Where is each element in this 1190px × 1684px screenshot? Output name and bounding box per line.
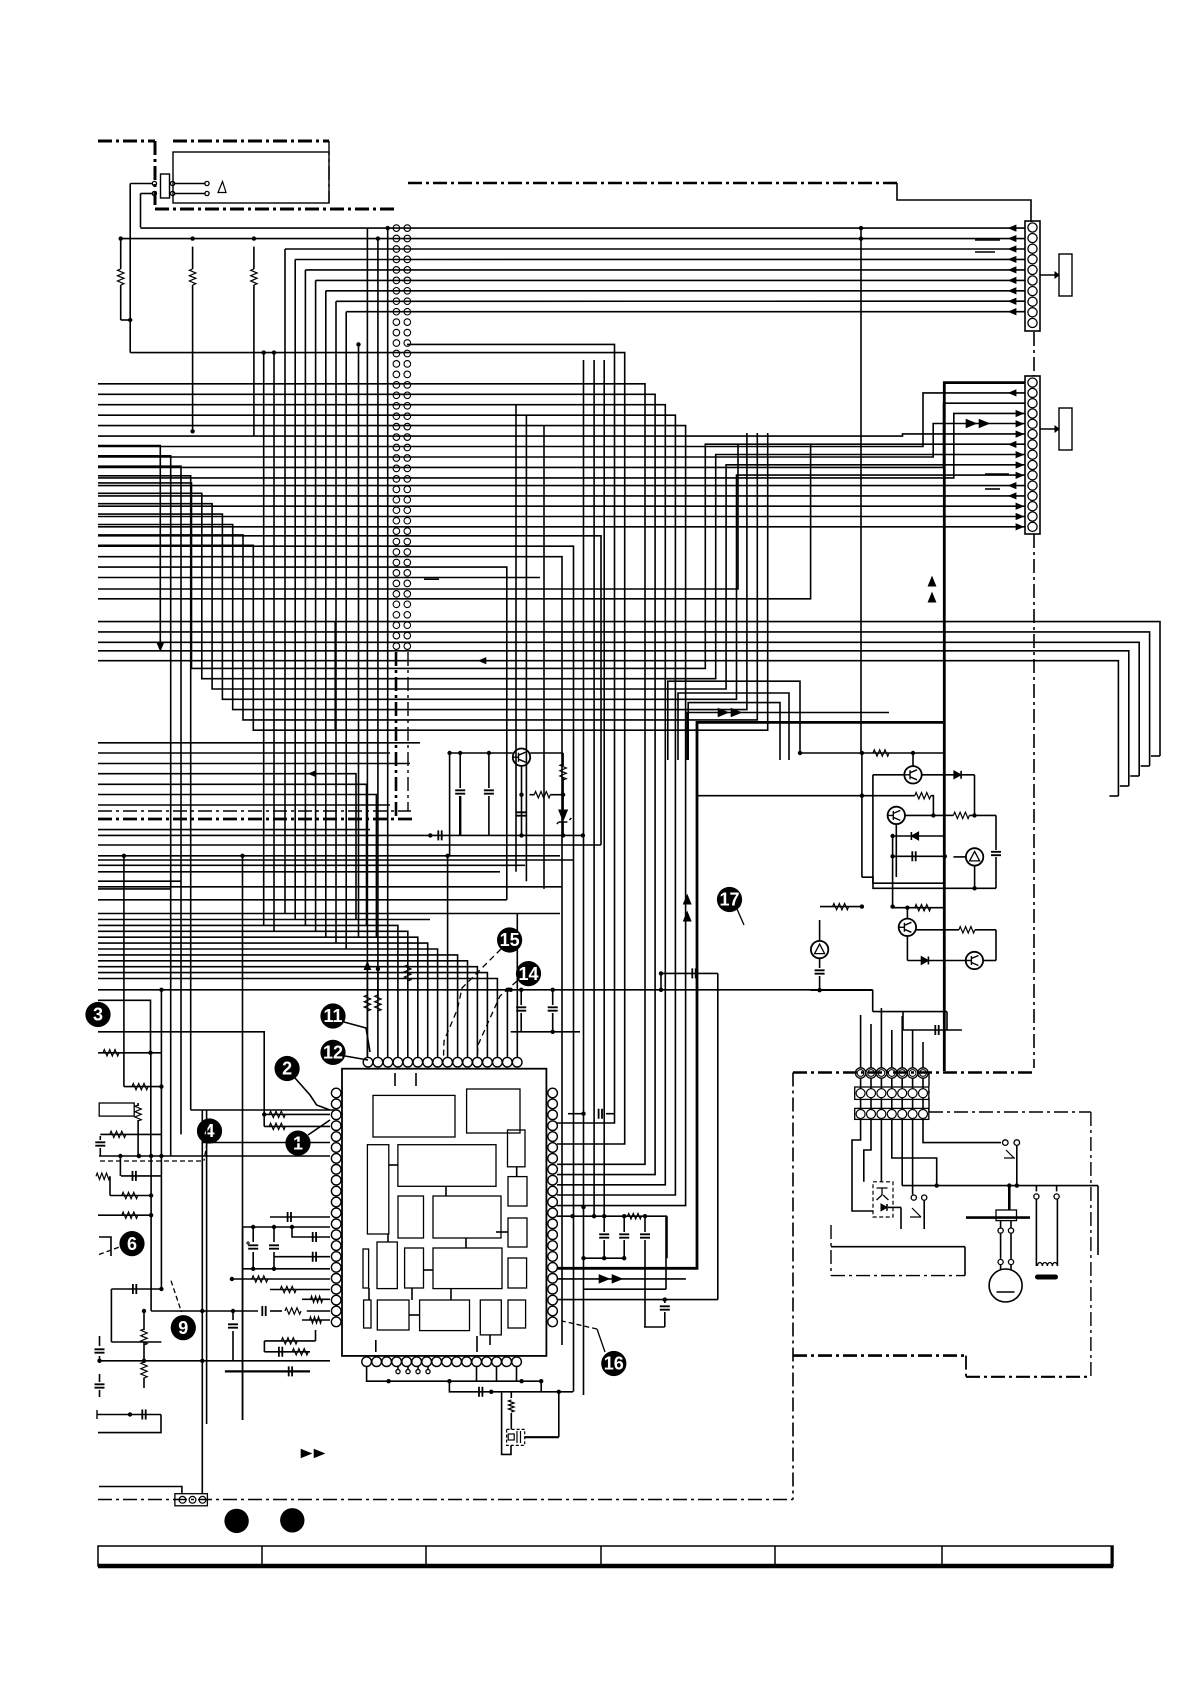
wire row 763 <box>98 763 410 765</box>
wire row 913 <box>98 913 560 915</box>
wire v151 <box>149 1154 153 1311</box>
wire row 599 <box>98 445 811 599</box>
wire row 352 <box>129 352 131 354</box>
wire row 1289 cap <box>111 1284 163 1342</box>
wire v583 lower <box>581 1205 585 1395</box>
resistor R-m2 <box>270 1286 330 1292</box>
transistor Q2 <box>904 766 921 783</box>
svg-text:14: 14 <box>518 964 538 984</box>
resistor R-907b <box>893 905 945 911</box>
coil L1 winding <box>1035 1200 1058 1280</box>
transistor Q3 <box>888 807 905 824</box>
badge 9 <box>171 1281 196 1341</box>
wire opto led right <box>888 1207 901 1229</box>
wire IC pin1 stub <box>366 969 368 1057</box>
resistor R-m6 <box>264 1347 310 1357</box>
svg-text:16: 16 <box>604 1354 624 1374</box>
wire row 855 <box>98 854 560 858</box>
wire Q5 top <box>905 906 909 919</box>
wire row 1269 <box>243 1267 330 1271</box>
capacitor C-l8 <box>95 1374 105 1397</box>
lamp feed contacts <box>998 1221 1014 1270</box>
shield rect <box>831 1225 965 1276</box>
wire Q2 left drop <box>873 775 945 883</box>
wire opto pin3 <box>880 1119 882 1181</box>
wire IC pin2 res <box>375 967 381 1057</box>
switch S1 <box>910 1119 927 1229</box>
wire row 829 <box>98 829 370 831</box>
capacitor C-r1 <box>568 1109 615 1119</box>
boundary dash-dot lamp box <box>793 1073 1091 1377</box>
wire IC pin3 up <box>387 920 389 1058</box>
wire row 1032 left <box>98 1032 264 1115</box>
capacitor C-m2 <box>246 1227 258 1269</box>
wire v202 <box>201 1110 203 1494</box>
wire cap bottoms row <box>511 1030 580 1034</box>
arrow up marks <box>684 895 691 921</box>
wire v150 mid <box>150 1053 152 1156</box>
fuse pins <box>152 181 209 195</box>
wire vertical x=861 top <box>859 226 863 248</box>
capacitor hang 2 <box>548 990 558 1032</box>
resistor rows to pins 1-2 area <box>262 1111 330 1129</box>
wire heavy relay feed <box>966 1186 1030 1218</box>
wire Q1 emitter <box>519 766 523 838</box>
wire vertical to IC pin2 <box>376 236 380 998</box>
wire rows to far-right verticals <box>98 622 1160 796</box>
wire rows near IC left <box>191 1110 335 1143</box>
wire heavy gnd <box>225 1366 310 1376</box>
wire bus A corner verticals <box>285 249 346 950</box>
screw hole left <box>224 1509 248 1533</box>
capacitor C-l1 <box>95 1136 105 1156</box>
resistor R-pull3 <box>251 247 257 436</box>
wire bus A rows 3-9 <box>285 249 1025 312</box>
badge 15 <box>444 927 523 1057</box>
wire row 589 <box>98 445 738 589</box>
boundary dash-dot left board edge <box>98 652 416 819</box>
arrow marks mid-up <box>928 577 935 602</box>
optocoupler diode <box>881 1204 887 1211</box>
screw hole right <box>280 1508 304 1532</box>
transistor Q5 <box>899 919 916 936</box>
resistor R-l4 <box>98 1212 153 1218</box>
wire Q2 row <box>873 774 945 776</box>
IC U1 inner blocks <box>363 1089 527 1335</box>
svg-text:3: 3 <box>93 1005 103 1025</box>
badge 14 <box>477 961 541 1057</box>
bus arrowheads into CN2 <box>1009 390 1023 530</box>
wire Q6 top <box>819 920 821 941</box>
IC U1 right pins <box>548 1088 558 1327</box>
resistor R-l3 <box>110 1192 153 1198</box>
wire stair f1 row1 <box>98 446 164 651</box>
junction v161 upper <box>159 988 163 1135</box>
badge 17 <box>717 887 744 925</box>
capacitor C-m6 <box>228 1309 238 1361</box>
wire rows 681-702 nest <box>668 681 800 760</box>
resistor R-907a <box>820 903 864 909</box>
svg-text:15: 15 <box>500 930 520 950</box>
wire IC pin row drops <box>477 1367 517 1382</box>
resistor R-q1 <box>530 792 566 798</box>
wire row 889b <box>98 888 171 890</box>
wire IC bottom small stubs <box>396 1367 430 1374</box>
wire row 1030 cap <box>903 1012 962 1035</box>
wire row 795 T2 feed <box>697 794 864 798</box>
wire row 919 <box>98 919 430 921</box>
wire row 1361 <box>98 1359 330 1363</box>
double arrow mark bottom <box>301 1450 324 1458</box>
wire fuse left leads <box>130 184 152 194</box>
capacitor C-sub1 <box>599 1216 609 1258</box>
wire row 835 rail <box>98 830 585 840</box>
resistor R-pull1 <box>118 236 133 322</box>
wire nested staircase left-to-CN2 <box>98 433 1025 730</box>
wire double arrow row 712 <box>687 709 889 761</box>
optocoupler PC1 box <box>873 1182 893 1217</box>
wire row 1000 corner <box>98 1000 151 1053</box>
badge 11 <box>320 1003 370 1052</box>
capacitor C-m4 <box>292 1227 330 1242</box>
wire IC gnd rail <box>367 1367 544 1384</box>
wire Q1 rail right <box>530 752 563 754</box>
wire row 774 corner <box>98 774 356 920</box>
resistor R-l5 <box>141 1309 147 1361</box>
wire row 1299 <box>557 1100 718 1302</box>
transistor Q7 <box>966 952 983 969</box>
wire v1239 long <box>123 856 125 1087</box>
wire row 1227 <box>243 1225 330 1229</box>
resistor R-m4 <box>302 1317 330 1323</box>
wire pin4 to node <box>892 1119 939 1187</box>
wire v2425 <box>242 856 244 1420</box>
wire row 973 cap <box>659 968 718 989</box>
wire xtal left loop <box>502 1392 511 1455</box>
wire row 990 long <box>98 988 873 1012</box>
wire IC pin9 up <box>447 856 449 1057</box>
coil L1 contacts <box>1034 1186 1059 1200</box>
resistor R-m3 <box>302 1296 330 1302</box>
wire row 795 res <box>862 793 936 818</box>
wires into board link rows <box>861 1008 923 1110</box>
capacitor C-sub3 <box>640 1216 650 1327</box>
wire row 1012 <box>873 1012 947 1030</box>
diode D-960 <box>907 936 965 965</box>
boundary dash-dot mid-right <box>98 1073 1034 1500</box>
wire row 1087 res <box>124 1083 164 1089</box>
capacitor C-q6 <box>815 958 825 990</box>
wire vertical x=387 <box>386 226 390 920</box>
svg-text:9: 9 <box>178 1318 188 1338</box>
wire bus A row 2 <box>121 236 1025 240</box>
wire IC pin1 res <box>364 975 370 1057</box>
resistor R-l2 <box>96 1173 110 1195</box>
wire vert x263 <box>262 350 266 925</box>
wire 6 stub <box>99 1237 111 1256</box>
resistor R-m5 <box>264 1330 315 1352</box>
wire Q3 leads <box>896 815 945 877</box>
wire vert x358 <box>356 342 360 937</box>
capacitor C-q5 <box>991 845 1001 888</box>
wire row 577 <box>98 577 540 579</box>
wire vert caps feeders <box>584 360 605 1216</box>
wire rows to IC right pins <box>98 344 686 1205</box>
wire CN1 label arrow <box>1040 272 1059 278</box>
wire v130 to row352 <box>129 320 131 353</box>
capacitor C-1312 <box>660 1300 670 1327</box>
connector CN2 label box <box>1059 408 1072 450</box>
capacitor C-m1 <box>270 1212 330 1222</box>
board link row A <box>855 1068 928 1078</box>
badge 2 <box>275 1056 331 1110</box>
double arrow on CN2 pin5 row <box>966 420 989 428</box>
badge 1 <box>285 1120 330 1156</box>
svg-text:11: 11 <box>323 1006 342 1026</box>
badge 4 <box>100 1118 222 1161</box>
resistor R-pull2 <box>189 247 195 434</box>
table bar <box>98 1546 1113 1566</box>
transistor Q4 <box>966 848 983 865</box>
table bar dividers <box>262 1546 942 1566</box>
svg-text:6: 6 <box>127 1234 137 1254</box>
wire double arrow row <box>557 1275 686 1283</box>
wire dense rows to IC top pins <box>98 925 497 1057</box>
wire row 865 <box>98 864 525 866</box>
wire row 805 <box>98 804 390 806</box>
transistor Q1 <box>513 749 530 766</box>
wire vert colA <box>334 622 336 731</box>
svg-text:12: 12 <box>323 1043 343 1063</box>
board link row C <box>855 1108 929 1119</box>
badge 12 <box>320 1040 368 1065</box>
wire vert mid2 <box>525 415 527 881</box>
wire opto pin1 <box>852 1119 873 1211</box>
wire row 1486 conn <box>99 1487 182 1494</box>
wire v717 extend <box>717 973 719 1100</box>
relay contact box <box>996 1210 1017 1221</box>
wire heavy B+ net <box>557 383 1025 1269</box>
IC U1 top pins <box>363 1057 522 1067</box>
wire vert mid1 <box>515 405 517 872</box>
capacitor C-l2 <box>120 1156 161 1181</box>
wire row 1327 <box>644 1326 665 1328</box>
wire row 1414 cap <box>97 1410 161 1433</box>
wire staircase left-mid-down <box>98 536 601 1392</box>
optocoupler transistor <box>877 1188 889 1200</box>
board link pin column <box>393 225 411 650</box>
zener D-q1 <box>557 806 572 838</box>
wire xtal out heavy <box>525 1392 559 1437</box>
wire vert x274 <box>272 350 276 931</box>
IC inner tick marks <box>376 1073 477 1352</box>
wire row 881b <box>98 880 181 882</box>
resistor R-929 <box>916 927 996 961</box>
svg-text:1: 1 <box>293 1133 303 1153</box>
capacitor C-l6 <box>95 1336 105 1363</box>
wire row 1342 <box>111 1341 161 1343</box>
wire vert mid3 <box>543 426 545 889</box>
wire stair f1 row4 <box>98 476 191 1110</box>
wire bus rows to CN2 lower pins <box>98 486 1025 527</box>
component box BL <box>99 1103 141 1158</box>
IC U1 left pins <box>331 1088 341 1327</box>
resistor R-l1 <box>100 1131 161 1137</box>
capacitor C-q1 <box>455 751 465 836</box>
wire row 753 T1 rail <box>98 750 944 756</box>
transistor Q6 <box>811 941 828 958</box>
IC U1 bottom pins <box>362 1357 522 1367</box>
wire row 742 <box>98 742 420 744</box>
wire Q3 emitter down <box>890 836 894 909</box>
connector CN1 <box>1025 221 1040 331</box>
switch S2 <box>1003 1140 1020 1188</box>
wire row 1311 long <box>151 1306 330 1316</box>
wire row 1156 <box>99 1154 330 1158</box>
wire vertical x=861 long <box>860 248 862 753</box>
boundary dash-dot right vertical <box>1033 332 1035 1068</box>
resistor R-l7 <box>141 1359 147 1388</box>
IC inner connection stubs <box>369 1165 517 1345</box>
capacitor C-sub2 <box>619 1216 629 1260</box>
lamp LA1 <box>989 1269 1022 1302</box>
wire row C pin7 to switch S2 <box>923 1119 1001 1142</box>
wire Q2 collector top <box>912 753 914 766</box>
capacitor C-m3 <box>269 1227 279 1269</box>
wire Q7 right <box>983 960 996 962</box>
wire pin5 to row <box>901 1119 903 1185</box>
net label dash <box>424 578 439 580</box>
wire right drop 1098 <box>1097 1186 1099 1255</box>
diode arrow on row 774 <box>309 771 316 777</box>
wire IC pin16 up <box>516 914 518 1058</box>
wire row 872 <box>98 871 500 873</box>
wire row 795 corner <box>98 795 376 938</box>
resistor R-m1 <box>230 1276 330 1282</box>
wire row 1186 <box>902 1183 1098 1187</box>
diode arrow on row 661 <box>479 658 486 664</box>
wire fuse left vertical <box>129 184 131 321</box>
wire fuse second vertical <box>140 194 142 228</box>
resistor R-q3 <box>945 812 996 845</box>
wire mid drop <box>540 1381 542 1392</box>
capacitor hang 1 <box>516 990 526 1032</box>
IC U1 body <box>342 1069 546 1356</box>
wire v161 <box>160 1134 162 1289</box>
boundary dash-dot top-right <box>408 182 897 185</box>
junction dot row753 x800 <box>798 751 802 755</box>
wire v2066 <box>206 1110 208 1424</box>
wire far-right hooks <box>1109 756 1160 796</box>
capacitor C-q2 <box>484 751 494 836</box>
wire bus A row 1 <box>141 227 1026 229</box>
wire IC pin15 up <box>505 988 509 1057</box>
net label dashes CN1 <box>975 240 1000 252</box>
wire cap bottom row <box>581 1256 624 1260</box>
wire row 990 right <box>811 988 873 992</box>
connector CN2 <box>1025 376 1040 534</box>
badge 16 <box>562 1321 626 1376</box>
wire loop 1289 <box>584 1216 667 1289</box>
capacitor C-m5 <box>274 1252 330 1262</box>
fuse F1 <box>161 174 170 198</box>
capacitor C-q3 <box>517 812 527 815</box>
switch contact triangle <box>218 182 226 193</box>
relay box dash-dot right edge <box>328 141 330 203</box>
wire Q4 row <box>953 857 976 891</box>
board link row B <box>855 1087 929 1099</box>
boundary dash-dot top-left <box>98 141 398 209</box>
resistor on pin5 line <box>405 965 411 981</box>
svg-text:2: 2 <box>282 1059 292 1079</box>
badge 6 <box>99 1231 145 1256</box>
wire opto pin2 <box>864 1119 871 1181</box>
badge 3 <box>85 1002 110 1027</box>
wire IC right row 1216 <box>557 1213 667 1258</box>
diode D-q3 <box>890 832 944 840</box>
wire Q1 rail left <box>447 751 512 856</box>
wire step to connector CN1 <box>897 183 1031 222</box>
wire stair f1 row3 <box>98 466 181 1134</box>
connector CN3 <box>175 1494 208 1506</box>
wire fuse row a <box>175 184 205 194</box>
wire CN2 label arrow <box>1040 426 1059 432</box>
svg-text:17: 17 <box>719 890 739 910</box>
wire bus rows to CN2 upper pins <box>98 393 1025 478</box>
wire Q2 area bottom <box>862 753 996 888</box>
wire stair f1 row2 <box>98 456 171 1156</box>
resistor R-q2 <box>560 753 566 806</box>
wire v2426b <box>242 1227 244 1420</box>
resistor R-xtal <box>509 1392 515 1430</box>
capacitor C-q4 <box>890 851 947 861</box>
wire CN2 dash labels <box>985 474 1009 489</box>
relay box K1 <box>173 152 329 203</box>
wire row 784 corner <box>98 784 367 926</box>
diode D-q2 <box>945 771 975 816</box>
wire xtal row <box>449 1381 573 1397</box>
crystal X1 <box>507 1429 525 1445</box>
connector CN1 label box <box>1059 254 1072 296</box>
bus arrowheads into CN1 <box>1009 225 1016 314</box>
wire row 1053 res <box>98 1050 161 1056</box>
wire vertical to IC pin1 <box>364 228 370 969</box>
